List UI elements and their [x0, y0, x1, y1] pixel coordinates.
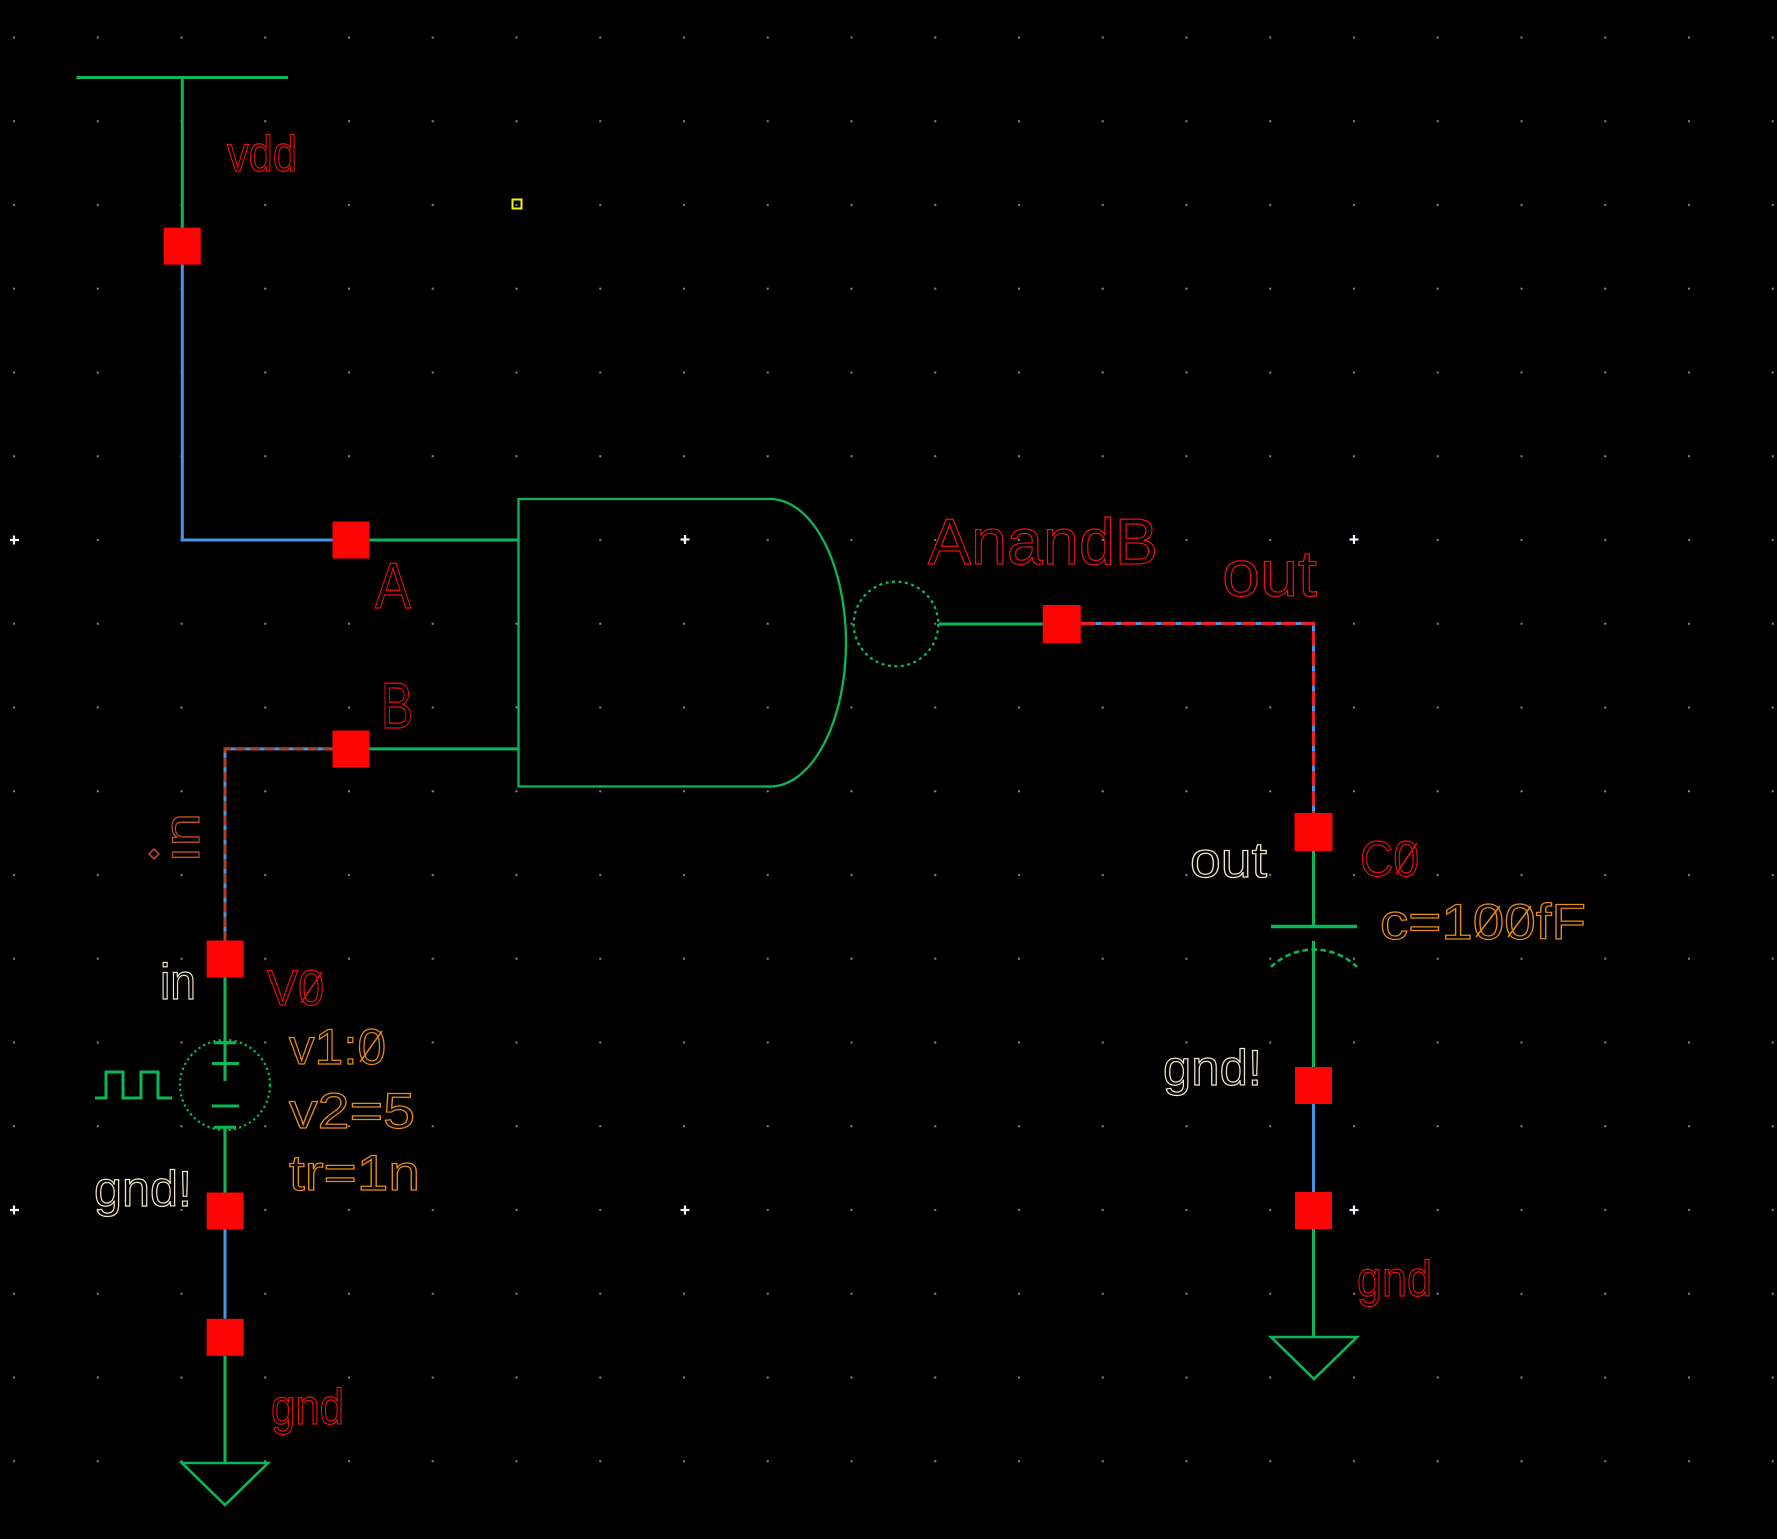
- major grid marker (1354,539.5): [1350, 535, 1359, 544]
- svg-text:in: in: [160, 954, 196, 1010]
- pin square in: [207, 941, 244, 978]
- svg-text:B: B: [381, 669, 413, 742]
- major grid marker (14,540): [10, 536, 19, 545]
- svg-text:gnd!: gnd!: [94, 1161, 192, 1217]
- pulse waveform icon: [95, 1072, 172, 1098]
- svg-text:c=100fF: c=100fF: [1380, 894, 1586, 950]
- ground symbol left: [182, 1463, 268, 1505]
- svg-text:gnd: gnd: [1357, 1251, 1432, 1307]
- net out wire (selected, dashed): [1081, 624, 1314, 814]
- wire to ground symbol (right): [1312, 1229, 1315, 1337]
- wire vdd to A (blue): [182, 265, 332, 540]
- capacitor C0: [1271, 851, 1357, 1067]
- wire B to gate: [370, 747, 519, 750]
- pin square C0 top: [1295, 813, 1333, 851]
- pin square A: [333, 522, 370, 559]
- wire bubble to output pin: [939, 623, 1043, 626]
- svg-text:V0: V0: [267, 960, 324, 1016]
- wire to ground symbol (left): [224, 1356, 227, 1462]
- pin square B: [333, 731, 370, 768]
- net in wire (selected, dashed): [225, 749, 333, 941]
- major grid marker (684,1210): [681, 1206, 690, 1215]
- slash of zero in C0: [1396, 843, 1417, 874]
- svg-text:vdd: vdd: [227, 126, 297, 182]
- NAND output bubble: [854, 582, 939, 667]
- gnd pin square left: [207, 1319, 244, 1356]
- svg-text:C0: C0: [1360, 831, 1419, 887]
- svg-text:out: out: [1222, 537, 1317, 610]
- ground symbol right: [1271, 1337, 1357, 1379]
- wire gnd! to gnd (left, blue): [224, 1230, 227, 1319]
- major grid marker (1354,1210): [1350, 1206, 1359, 1215]
- slash of zero in V0: [301, 972, 322, 1003]
- gnd! pin square right: [1295, 1067, 1332, 1104]
- gnd pin square right: [1295, 1192, 1332, 1229]
- voltage source V0: [180, 978, 270, 1193]
- slash of zero in v1:0: [360, 1031, 382, 1062]
- wire A to gate: [370, 539, 519, 542]
- output pin square: [1043, 605, 1081, 643]
- NAND gate U0 body: [519, 499, 847, 787]
- svg-text:out: out: [1190, 832, 1267, 888]
- gnd! pin square left: [207, 1193, 244, 1230]
- slashes of zeros in c=100fF: [1476, 906, 1531, 937]
- cursor yellow square: [513, 200, 522, 209]
- vdd supply symbol: [77, 78, 289, 229]
- wire gnd! to gnd (right, blue): [1312, 1104, 1315, 1192]
- svg-text:gnd!: gnd!: [1163, 1040, 1262, 1096]
- svg-text:v2=5: v2=5: [289, 1083, 415, 1139]
- label origin diamond (in): [149, 849, 159, 859]
- svg-text:ın: ın: [154, 813, 210, 863]
- major grid marker (684,539.5): [681, 535, 690, 544]
- pin square vdd: [164, 228, 201, 265]
- svg-text:gnd: gnd: [271, 1379, 344, 1435]
- svg-text:A: A: [375, 549, 412, 622]
- svg-text:tr=1n: tr=1n: [289, 1145, 420, 1201]
- major grid marker (14,1210): [10, 1206, 19, 1215]
- svg-text:AnandB: AnandB: [928, 505, 1158, 578]
